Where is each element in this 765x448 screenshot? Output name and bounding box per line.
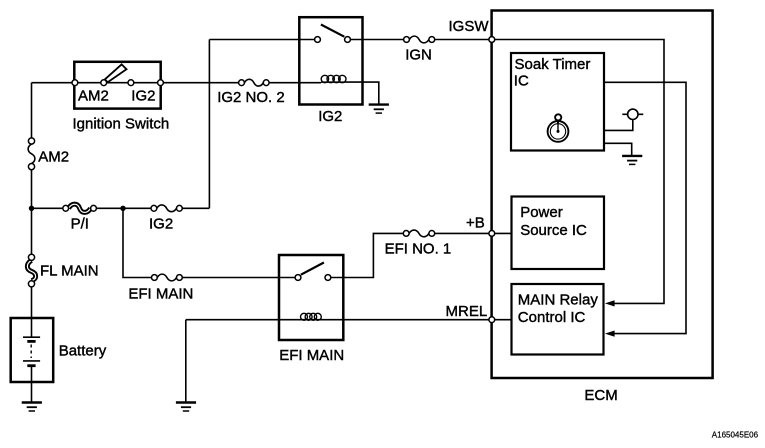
svg-text:Control IC: Control IC xyxy=(518,309,586,326)
svg-text:Ignition Switch: Ignition Switch xyxy=(73,116,170,133)
svg-text:EFI NO. 1: EFI NO. 1 xyxy=(385,241,452,258)
svg-text:+B: +B xyxy=(466,215,485,232)
svg-text:AM2: AM2 xyxy=(38,148,69,165)
svg-text:Soak Timer: Soak Timer xyxy=(515,56,591,73)
svg-text:Battery: Battery xyxy=(59,343,107,360)
svg-text:MREL: MREL xyxy=(446,303,488,320)
svg-text:IG2 NO. 2: IG2 NO. 2 xyxy=(217,89,285,106)
svg-text:P/I: P/I xyxy=(71,215,89,232)
svg-text:Source IC: Source IC xyxy=(520,222,587,239)
svg-text:IG2: IG2 xyxy=(131,88,155,105)
svg-text:IGN: IGN xyxy=(405,47,432,64)
svg-text:AM2: AM2 xyxy=(78,88,109,105)
svg-text:MAIN Relay: MAIN Relay xyxy=(518,292,599,309)
svg-text:IGSW: IGSW xyxy=(449,18,490,35)
svg-text:FL MAIN: FL MAIN xyxy=(40,263,99,280)
svg-text:A165045E06: A165045E06 xyxy=(712,430,759,439)
svg-text:IC: IC xyxy=(514,73,529,90)
svg-text:EFI MAIN: EFI MAIN xyxy=(279,347,344,364)
svg-text:IG2: IG2 xyxy=(318,108,342,125)
svg-text:Power: Power xyxy=(520,204,563,221)
svg-text:ECM: ECM xyxy=(584,387,617,404)
svg-text:EFI MAIN: EFI MAIN xyxy=(128,285,193,302)
svg-text:IG2: IG2 xyxy=(149,215,173,232)
